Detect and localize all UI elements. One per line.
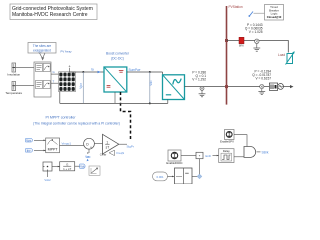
- dashed gate control wire: [121, 92, 131, 140]
- breaker control symbol: [248, 12, 264, 17]
- wire temperature to interface: [16, 85, 34, 87]
- interface block (2x2 converter blocks): [34, 62, 51, 97]
- svg-text:Vdc: Vdc: [149, 80, 153, 86]
- boost bottom stub: [114, 92, 116, 103]
- PV negative stub: [59, 92, 61, 104]
- constant oval: [153, 172, 168, 181]
- ammeter label Ia: [91, 67, 101, 73]
- svg-text:SBrk: SBrk: [262, 150, 269, 154]
- title annotation box: [10, 4, 97, 20]
- svg-text:Vdc: Vdc: [86, 155, 91, 159]
- svg-text:SigPr: SigPr: [127, 144, 134, 148]
- voltmeter on grid line with ground: [258, 85, 265, 95]
- svg-text:Clear: Clear: [100, 153, 107, 157]
- inverter bottom stub: [167, 100, 169, 104]
- wire EnableSPV to AND: [234, 135, 247, 147]
- PV array module icon: [59, 72, 76, 92]
- wire EnableDCDC to mult: [181, 155, 196, 157]
- data tag VdcF: [80, 164, 86, 168]
- grid source impedance box: [269, 83, 277, 90]
- AND gate: [244, 147, 256, 158]
- slider Temperature: [5, 82, 22, 96]
- multiplier star box: [196, 152, 203, 158]
- delay block: [219, 149, 234, 163]
- svg-text:(DC-DC): (DC-DC): [111, 56, 124, 60]
- svg-text:Vmpp1: Vmpp1: [62, 142, 72, 146]
- svg-text:1 + sT: 1 + sT: [63, 167, 71, 171]
- boost converter block (DC-DC): [104, 67, 127, 92]
- timed breaker logic box: [265, 5, 284, 21]
- inverter block (DC-AC): [163, 72, 185, 100]
- feedback input Vpv below summing: [85, 149, 90, 159]
- wire delay to AND: [234, 156, 244, 158]
- svg-text:V = 1.292: V = 1.292: [192, 77, 206, 81]
- svg-text:Vpv: Vpv: [79, 83, 83, 89]
- svg-text:Ia: Ia: [91, 67, 94, 71]
- breaker BRK (red square): [239, 37, 245, 47]
- feeder wire to load: [227, 41, 289, 53]
- wire sum to integrator: [94, 143, 102, 145]
- junction diamond: [197, 174, 202, 179]
- wire T to PV array: [51, 82, 59, 84]
- svg-text:PI MPPT controller: PI MPPT controller: [45, 116, 76, 120]
- svg-text:1: 1: [106, 140, 108, 144]
- wire to delay: [213, 155, 219, 157]
- MPPT block: [46, 138, 60, 153]
- grid AC source circle: [278, 84, 284, 90]
- svg-text:Manitoba-HVDC Research Centre: Manitoba-HVDC Research Centre: [12, 12, 88, 18]
- data tag Ipv input: [26, 148, 33, 152]
- wire AND output: [257, 151, 261, 153]
- voltmeter on feeder with ground: [253, 39, 260, 51]
- svg-text:Closed@t0: Closed@t0: [267, 15, 282, 19]
- wire comparator output: [192, 175, 200, 177]
- svg-text:+: +: [90, 145, 92, 149]
- svg-text:V = 1.025: V = 1.025: [249, 30, 263, 34]
- svg-text:FreqS: FreqS: [117, 151, 125, 155]
- load element: [278, 51, 295, 64]
- wire to lag block: [52, 166, 60, 168]
- svg-text:Delay: Delay: [223, 149, 231, 153]
- voltmeter Ea with ground: [199, 86, 206, 96]
- signal probe label Vdc: [86, 155, 91, 161]
- svg-text:Ipv: Ipv: [27, 148, 31, 152]
- measurement text P/Q/V station: [245, 23, 263, 34]
- svg-text:T: T: [53, 79, 55, 83]
- DC+ rail wire: [70, 71, 105, 73]
- svg-text:PV Array: PV Array: [61, 50, 73, 54]
- wire MPPT output: [60, 144, 84, 146]
- integrator block 1/sT: [103, 134, 119, 154]
- multiplier box Vdc2: [43, 162, 52, 171]
- wire Vpv to MPPT: [34, 139, 46, 141]
- clear input: [100, 150, 124, 156]
- svg-text:Load: Load: [278, 53, 285, 57]
- voltmeter Vpv: [79, 72, 83, 103]
- svg-text:Vpv: Vpv: [26, 138, 31, 142]
- node Vpv junction: [82, 71, 84, 73]
- svg-text:PVStation: PVStation: [229, 5, 243, 9]
- PV positive terminal: [68, 64, 71, 73]
- DC output wire: [127, 71, 163, 73]
- svg-text:Vdc2: Vdc2: [44, 178, 51, 182]
- bus tap node top: [225, 39, 228, 42]
- svg-text:BRK: BRK: [239, 44, 245, 48]
- comparator block: [175, 168, 193, 184]
- wire insolation to interface: [16, 67, 34, 69]
- EnableSPV block: [220, 130, 234, 144]
- voltmeter Vdc (DC link): [149, 71, 153, 104]
- svg-text:G: G: [53, 70, 55, 74]
- wire lag output: [75, 165, 80, 167]
- wire G to PV array: [51, 73, 59, 75]
- measurement text P/Q/V grid: [252, 70, 271, 81]
- AC line wire: [185, 86, 292, 88]
- svg-text:EnableDCDC: EnableDCDC: [166, 161, 182, 165]
- measurement text P/Q/V inverter: [192, 70, 206, 81]
- svg-text:Boost converter: Boost converter: [106, 52, 130, 56]
- svg-text:Insolation: Insolation: [7, 73, 20, 77]
- plot gizmo: [89, 166, 100, 175]
- svg-text:MPPT: MPPT: [48, 148, 59, 152]
- data tag Vpv input: [26, 138, 33, 142]
- slider Insolation: [7, 63, 20, 77]
- svg-text:0.001: 0.001: [157, 175, 164, 179]
- wire Ipv to MPPT: [34, 149, 46, 151]
- svg-text:EnD: EnD: [206, 154, 211, 158]
- wire star box down: [199, 159, 201, 177]
- lag block G/(1+sT): [60, 162, 75, 171]
- bottom rail wire: [60, 102, 168, 104]
- summing junction: [84, 138, 95, 149]
- stub Vdc2 label: [44, 171, 51, 182]
- svg-text:Vdc: Vdc: [80, 164, 85, 168]
- svg-text:The sites are: The sites are: [33, 44, 52, 48]
- wire oval to compare: [168, 175, 175, 177]
- svg-text:Temperature: Temperature: [5, 91, 22, 95]
- bus PVStation: [226, 6, 228, 105]
- EnableDCDC block: [166, 150, 182, 165]
- svg-text:(The Integral controller can b: (The Integral controller can be replaced…: [33, 122, 120, 126]
- svg-text:SumPwr: SumPwr: [129, 68, 142, 72]
- callout note "The sites are exaggerated": [28, 43, 56, 61]
- svg-text:exaggerated: exaggerated: [33, 49, 51, 53]
- svg-text:V = 0.6157: V = 0.6157: [255, 77, 271, 81]
- svg-text:sT: sT: [106, 146, 110, 150]
- bus tap node bottom: [225, 85, 228, 88]
- svg-text:EnableSPV: EnableSPV: [220, 139, 234, 143]
- wire integrator output: [119, 143, 127, 145]
